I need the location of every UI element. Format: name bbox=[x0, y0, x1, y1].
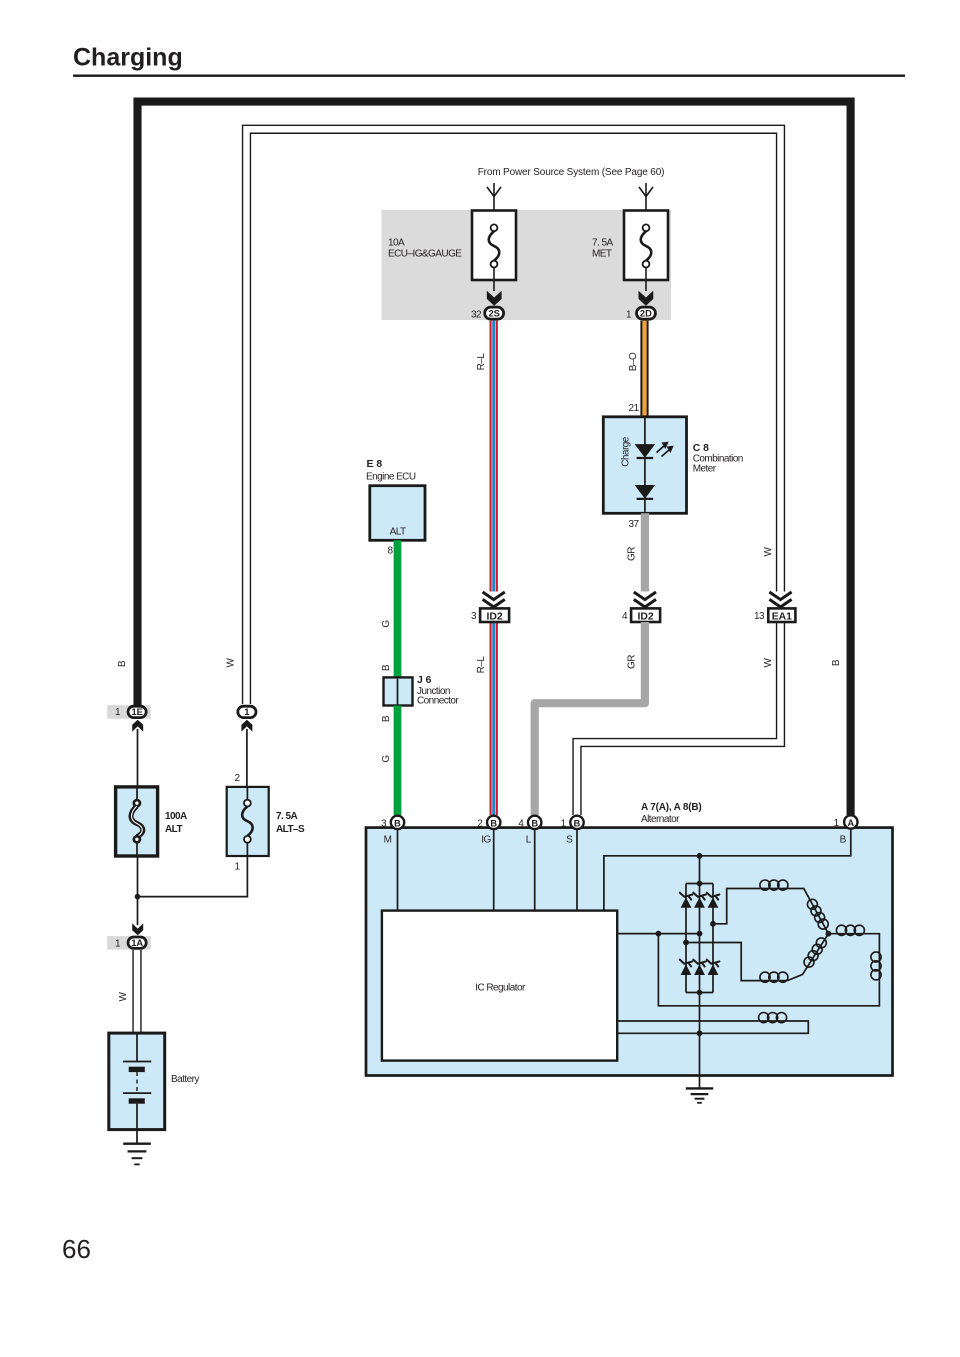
stator coil phase C (vertical right) bbox=[871, 952, 881, 980]
svg-text:2D: 2D bbox=[640, 307, 652, 318]
wire GR (meter to ID2) bbox=[641, 513, 649, 591]
svg-text:G: G bbox=[381, 755, 392, 763]
fuse 100A ALT bbox=[116, 787, 187, 856]
chevron receptacle into EA1 bbox=[769, 592, 791, 607]
stator coil phase B (horizontal bottom) bbox=[686, 943, 788, 981]
connector 1A gray tag bbox=[107, 936, 151, 950]
svg-text:7. 5A: 7. 5A bbox=[276, 811, 297, 822]
wire W (EA1 down to alternator S pin) bbox=[577, 622, 781, 815]
svg-text:MET: MET bbox=[592, 248, 612, 259]
svg-text:Alternator: Alternator bbox=[641, 814, 680, 825]
wire fuse ALT-S down and left to junction bbox=[138, 856, 248, 897]
wire B-O (2D to combination meter) bbox=[640, 321, 648, 417]
svg-text:1A: 1A bbox=[131, 937, 143, 948]
diode D3 (top right) bbox=[707, 893, 720, 908]
gray fuse block background bbox=[382, 210, 672, 320]
feed wire to fuse 10A bbox=[487, 183, 501, 224]
svg-text:1: 1 bbox=[234, 862, 240, 873]
svg-text:GR: GR bbox=[627, 655, 638, 669]
diode D6 (bottom right) bbox=[707, 960, 720, 975]
arrow up below 1E bbox=[132, 720, 143, 732]
svg-text:B: B bbox=[531, 818, 538, 828]
svg-text:B: B bbox=[831, 659, 842, 666]
diode (lower) bbox=[635, 485, 656, 499]
svg-text:W: W bbox=[763, 546, 774, 556]
pin circle 1(B) S bbox=[561, 816, 584, 830]
svg-text:ID2: ID2 bbox=[487, 611, 503, 622]
diode D5 (bottom center) bbox=[693, 960, 706, 975]
ground (battery) bbox=[123, 1130, 151, 1165]
junction B rail / rectifier bbox=[697, 853, 703, 859]
title underline bbox=[73, 75, 905, 77]
neutral return wire bbox=[658, 934, 879, 1006]
wire 1E to fuse ALT bbox=[137, 729, 139, 787]
svg-text:C 8: C 8 bbox=[693, 443, 709, 454]
connector oval 2D pin 1 bbox=[626, 307, 655, 320]
fuse 10A ECU-IG&GAUGE bbox=[388, 211, 516, 292]
svg-text:66: 66 bbox=[62, 1234, 91, 1264]
stator coil phase A (horizontal top) bbox=[760, 888, 787, 890]
junction node bbox=[135, 894, 141, 900]
svg-text:B: B bbox=[381, 664, 392, 671]
svg-text:A 7(A), A 8(B): A 7(A), A 8(B) bbox=[641, 802, 702, 813]
svg-text:ALT: ALT bbox=[390, 527, 406, 538]
wire G (J6 to alternator M) bbox=[394, 706, 402, 816]
svg-text:R–L: R–L bbox=[476, 353, 487, 371]
stator phase A wire (right leg tap to coil) bbox=[713, 889, 760, 924]
diode D4 (bottom left) bbox=[680, 960, 693, 975]
svg-text:7. 5A: 7. 5A bbox=[592, 238, 613, 249]
svg-text:B: B bbox=[117, 660, 128, 667]
svg-text:4: 4 bbox=[622, 611, 628, 622]
wire G (ECU ALT to J6) bbox=[394, 540, 402, 677]
svg-text:GR: GR bbox=[627, 547, 638, 561]
svg-text:J 6: J 6 bbox=[417, 675, 432, 686]
svg-text:100A: 100A bbox=[165, 811, 187, 822]
svg-text:ECU–IG&GAUGE: ECU–IG&GAUGE bbox=[388, 248, 462, 259]
chevron receptacle into ID2 (right) bbox=[634, 592, 656, 607]
svg-text:Connector: Connector bbox=[417, 696, 459, 707]
connector oval 1A bbox=[128, 937, 146, 948]
connector ID2 pin 4 bbox=[622, 608, 660, 622]
svg-text:B–O: B–O bbox=[628, 352, 639, 371]
feed wire to fuse 7.5A bbox=[639, 183, 653, 224]
rectifier left leg bbox=[685, 884, 687, 993]
arrow into connector 2D bbox=[639, 291, 654, 306]
connector oval 2S pin 32 bbox=[471, 307, 504, 320]
svg-text:1: 1 bbox=[244, 706, 249, 717]
svg-text:IG: IG bbox=[481, 835, 491, 846]
neutral point bbox=[826, 931, 832, 937]
svg-text:13: 13 bbox=[754, 611, 765, 622]
pin circle 2(B) IG bbox=[477, 816, 500, 830]
lead L to IC regulator bbox=[534, 830, 536, 911]
pin circle 4(B) L bbox=[518, 816, 541, 830]
pin circle 3(B) M bbox=[381, 816, 404, 830]
svg-text:ALT: ALT bbox=[165, 824, 182, 835]
diode D1 (top left) bbox=[680, 893, 693, 908]
svg-text:S: S bbox=[566, 835, 573, 846]
wire R-L lower (ID2 to alternator IG) bbox=[490, 622, 498, 815]
connector ID2 pin 3 bbox=[471, 608, 509, 622]
svg-text:8: 8 bbox=[387, 546, 393, 557]
sense rail IC regulator to center leg bbox=[617, 933, 699, 935]
svg-text:ALT–S: ALT–S bbox=[276, 824, 305, 835]
svg-text:R–L: R–L bbox=[476, 656, 487, 674]
svg-text:IC Regulator: IC Regulator bbox=[475, 983, 526, 994]
svg-text:Charging: Charging bbox=[73, 44, 183, 72]
stator phase B diagonal from neutral bbox=[788, 934, 829, 981]
svg-text:10A: 10A bbox=[388, 238, 405, 249]
battery bbox=[109, 1033, 165, 1130]
wire W loop (top, from connector 1 to EA1) bbox=[247, 129, 781, 704]
junction connector J6 bbox=[384, 677, 413, 705]
arrow up below 1 bbox=[241, 720, 252, 732]
svg-text:B: B bbox=[840, 835, 847, 846]
svg-text:B: B bbox=[394, 818, 401, 828]
arrow into connector 2S bbox=[487, 291, 502, 306]
stator coil phase C (horizontal right) bbox=[828, 934, 879, 980]
svg-text:Engine ECU: Engine ECU bbox=[366, 472, 416, 483]
connector 1E gray tag bbox=[107, 705, 151, 719]
svg-text:B: B bbox=[381, 715, 392, 722]
combination meter C8 box bbox=[603, 417, 686, 514]
LED arrows bbox=[657, 443, 673, 457]
fuse 7.5A ALT-S bbox=[227, 787, 305, 856]
svg-text:A: A bbox=[847, 818, 854, 828]
lead IG to IC regulator bbox=[493, 830, 495, 911]
svg-text:From Power Source System (See: From Power Source System (See Page 60) bbox=[478, 167, 665, 178]
engine ECU E8 box bbox=[370, 486, 425, 541]
svg-text:W: W bbox=[226, 657, 237, 667]
svg-text:EA1: EA1 bbox=[772, 611, 792, 622]
IC regulator box bbox=[382, 911, 617, 1061]
svg-text:B: B bbox=[490, 818, 497, 828]
connector EA1 pin 13 bbox=[754, 608, 795, 622]
svg-text:M: M bbox=[384, 835, 392, 846]
pin circle 1(A) B bbox=[834, 815, 858, 829]
connector oval 1 (white wire) bbox=[238, 706, 256, 717]
lead S to IC regulator bbox=[576, 830, 578, 911]
rectifier top bus bbox=[686, 883, 713, 885]
chevron receptacle into ID2 (left) bbox=[483, 592, 505, 607]
ground (alternator) bbox=[686, 1088, 713, 1102]
svg-text:1E: 1E bbox=[131, 706, 142, 717]
lead M to IC regulator bbox=[397, 830, 399, 911]
wire W (1A to battery) bbox=[132, 950, 141, 1034]
rectifier right leg bbox=[712, 884, 714, 993]
svg-text:3: 3 bbox=[471, 611, 477, 622]
alternator box bbox=[366, 828, 893, 1076]
svg-text:G: G bbox=[381, 620, 392, 628]
wire 1 to fuse ALT-S bbox=[246, 729, 248, 787]
wire GR lower (ID2 to alternator L) bbox=[535, 622, 645, 815]
rotor field wire top bbox=[617, 1020, 758, 1022]
connector oval 1E bbox=[128, 706, 146, 717]
svg-text:W: W bbox=[118, 991, 129, 1001]
stator phase A diagonal to neutral bbox=[788, 889, 829, 934]
svg-text:21: 21 bbox=[628, 403, 639, 414]
rectifier bottom bus bbox=[686, 992, 713, 994]
wire B thick main loop (battery B+ feed) bbox=[138, 102, 851, 815]
svg-text:2: 2 bbox=[234, 773, 240, 784]
svg-text:W: W bbox=[763, 657, 774, 667]
rotor field wire return bbox=[617, 1021, 808, 1033]
wire fuse ALT down to junction bbox=[137, 856, 139, 925]
svg-text:Battery: Battery bbox=[171, 1074, 199, 1085]
svg-text:32: 32 bbox=[471, 309, 482, 320]
diode D2 (top center) bbox=[693, 893, 706, 908]
rectifier center leg bbox=[699, 856, 701, 1088]
svg-text:37: 37 bbox=[628, 519, 639, 530]
svg-text:2S: 2S bbox=[488, 307, 499, 318]
rotor field coil bbox=[758, 1020, 786, 1022]
svg-text:B: B bbox=[574, 818, 581, 828]
arrow down into 1A bbox=[132, 923, 143, 935]
svg-text:Meter: Meter bbox=[693, 464, 717, 475]
svg-text:E 8: E 8 bbox=[367, 459, 383, 470]
svg-text:ID2: ID2 bbox=[638, 611, 654, 622]
wire R-L upper (2S to ID2) bbox=[490, 321, 498, 592]
fuse 7.5A MET bbox=[592, 211, 668, 292]
lead B down to B+ rail and to IC regulator bbox=[604, 830, 851, 911]
charge LED indicator bbox=[635, 444, 656, 458]
svg-text:Charge: Charge bbox=[621, 436, 632, 466]
